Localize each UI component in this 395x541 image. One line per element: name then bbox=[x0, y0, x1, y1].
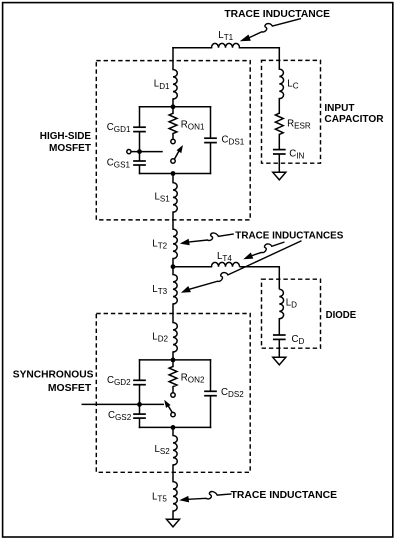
wire LS1 to LT2 bbox=[172, 212, 174, 229]
svg-text:RON1: RON1 bbox=[181, 119, 205, 131]
svg-text:TRACE INDUCTANCES: TRACE INDUCTANCES bbox=[235, 229, 343, 241]
svg-text:MOSFET: MOSFET bbox=[49, 142, 92, 154]
svg-text:LD: LD bbox=[286, 297, 297, 309]
switch contact circle lower Q1 bbox=[171, 159, 175, 163]
inductor LS2 bbox=[173, 436, 177, 466]
inductor LC bbox=[279, 69, 283, 99]
capacitor CDS1 bbox=[204, 137, 217, 139]
wire mosfet1 right lower bbox=[210, 143, 212, 173]
capacitor CD bbox=[273, 334, 286, 336]
resistor RON2 bbox=[169, 366, 177, 386]
wire CGS1 to source bus bbox=[139, 166, 141, 174]
switch arm Q2 bbox=[169, 407, 172, 413]
svg-text:TRACE INDUCTANCE: TRACE INDUCTANCE bbox=[231, 489, 337, 501]
svg-text:CGD2: CGD2 bbox=[107, 375, 131, 387]
wire mosfet2 right upper bbox=[210, 360, 212, 391]
svg-text:LD1: LD1 bbox=[154, 79, 170, 91]
resistor RESR bbox=[275, 113, 283, 134]
svg-text:LT2: LT2 bbox=[152, 239, 167, 251]
wire mosfet1 right upper bbox=[210, 107, 212, 138]
svg-text:DIODE: DIODE bbox=[326, 309, 357, 321]
wire drain node to RON2 bbox=[172, 360, 174, 367]
svg-text:RESR: RESR bbox=[287, 118, 311, 130]
node source sync bbox=[171, 425, 176, 430]
svg-text:CAPACITOR: CAPACITOR bbox=[324, 113, 384, 125]
svg-text:CD: CD bbox=[292, 334, 305, 346]
callout arrow to LT2 bbox=[188, 233, 234, 242]
capacitor CGS2 bbox=[133, 413, 146, 415]
wire mosfet2 left upper bbox=[139, 360, 141, 380]
callout arrow to LT1 bbox=[249, 19, 301, 38]
wire mosfet2 bottom bus bbox=[140, 426, 211, 428]
gate stub wire Q2 bbox=[82, 403, 163, 405]
node drain high-side bbox=[171, 104, 176, 109]
svg-text:CIN: CIN bbox=[289, 149, 304, 161]
wire CGD1 to gate node bbox=[139, 132, 141, 160]
wire LT5 to ground bbox=[172, 511, 174, 519]
svg-text:LT1: LT1 bbox=[218, 30, 233, 42]
capacitor CDS2 bbox=[204, 390, 217, 392]
inductor LD1 bbox=[173, 70, 177, 100]
wire mosfet1 bottom bus bbox=[140, 173, 211, 175]
callout arrow to LT4 bbox=[251, 242, 284, 256]
diode dashed box bbox=[262, 279, 321, 348]
svg-text:LC: LC bbox=[287, 79, 298, 91]
wire LS2 to LT5 bbox=[172, 465, 174, 482]
wire phase to LT4 bbox=[173, 266, 212, 268]
wire drop to input capacitor bbox=[278, 48, 280, 69]
wire LT3 to LD2 bbox=[172, 304, 174, 323]
trace inductor LT3 bbox=[173, 275, 177, 305]
callout arrow to LT3 bbox=[189, 241, 302, 290]
wire drain node to RON1 bbox=[172, 107, 174, 114]
svg-text:CDS1: CDS1 bbox=[222, 134, 245, 146]
wire top horizontal right segment bbox=[240, 47, 280, 49]
wire LT4 to diode branch bbox=[240, 267, 280, 290]
svg-text:SYNCHRONOUS: SYNCHRONOUS bbox=[13, 369, 94, 381]
wire top horizontal left segment bbox=[173, 47, 212, 49]
wire to input ground bbox=[278, 155, 280, 172]
switch arm Q1 bbox=[175, 149, 180, 159]
wire mosfet1 top bus bbox=[140, 106, 211, 108]
svg-text:LT3: LT3 bbox=[152, 284, 167, 296]
svg-text:LT5: LT5 bbox=[152, 492, 167, 504]
svg-text:CDS2: CDS2 bbox=[221, 387, 244, 399]
node source high-side bbox=[171, 171, 176, 176]
trace inductor LT1 bbox=[212, 43, 240, 47]
trace inductor LT5 bbox=[173, 482, 177, 512]
svg-text:CGD1: CGD1 bbox=[107, 122, 131, 134]
high-side MOSFET dashed box bbox=[96, 61, 250, 220]
wire mosfet1 left upper bbox=[139, 107, 141, 127]
node gate Q2 bbox=[137, 402, 142, 407]
synchronous MOSFET dashed box bbox=[96, 314, 250, 473]
callout arrow to LT5 bbox=[188, 492, 232, 500]
ground input capacitor bbox=[273, 172, 286, 180]
svg-text:MOSFET: MOSFET bbox=[48, 382, 92, 394]
input capacitor dashed box bbox=[262, 60, 321, 163]
svg-text:RON2: RON2 bbox=[181, 373, 205, 385]
svg-text:CGS2: CGS2 bbox=[108, 410, 132, 422]
inductor LD bbox=[279, 289, 283, 319]
wire mosfet2 top bus bbox=[140, 359, 211, 361]
wire LD to CD bbox=[278, 319, 280, 335]
wire source to LS2 bbox=[172, 427, 174, 435]
resistor RON1 bbox=[169, 113, 177, 133]
node gate Q1 bbox=[137, 149, 142, 154]
capacitor CGD1 bbox=[133, 126, 146, 128]
gate stub wire Q1 bbox=[131, 151, 162, 153]
svg-text:INPUT: INPUT bbox=[324, 102, 355, 114]
ground main bbox=[167, 519, 180, 527]
svg-text:TRACE INDUCTANCE: TRACE INDUCTANCE bbox=[224, 8, 330, 20]
svg-text:LS2: LS2 bbox=[155, 444, 171, 456]
wire CGS2 to source bus bbox=[139, 419, 141, 428]
wire mosfet2 right lower bbox=[210, 397, 212, 428]
capacitor CGD2 bbox=[133, 379, 146, 381]
ground diode bbox=[273, 357, 286, 365]
wire LT2 to phase node bbox=[172, 259, 174, 267]
capacitor CIN bbox=[273, 149, 286, 151]
svg-text:HIGH-SIDE: HIGH-SIDE bbox=[40, 130, 91, 142]
switch contact circle upper Q2 bbox=[171, 393, 175, 397]
wire CD to diode ground bbox=[278, 340, 280, 357]
wire phase to LT3 bbox=[172, 267, 174, 275]
inductor LD2 bbox=[173, 323, 177, 353]
trace inductor LT2 bbox=[173, 229, 177, 259]
node drain sync bbox=[171, 358, 176, 363]
node phase bbox=[171, 264, 176, 269]
svg-text:LT4: LT4 bbox=[217, 251, 232, 263]
switch contact circle lower Q2 bbox=[171, 412, 175, 416]
svg-text:LD2: LD2 bbox=[152, 332, 168, 344]
wire source to LS1 bbox=[172, 174, 174, 183]
trace inductor LT4 bbox=[212, 262, 240, 266]
capacitor CGS1 bbox=[133, 160, 146, 162]
wire drop to high-side drain bbox=[172, 48, 174, 70]
switch contact circle upper Q1 bbox=[171, 139, 175, 143]
inductor LS1 bbox=[173, 183, 177, 213]
svg-text:LS1: LS1 bbox=[155, 191, 171, 203]
gate terminal circle Q1 bbox=[127, 150, 131, 154]
svg-text:CGS1: CGS1 bbox=[107, 158, 131, 170]
wire CGD2 to gate node bbox=[139, 386, 141, 414]
